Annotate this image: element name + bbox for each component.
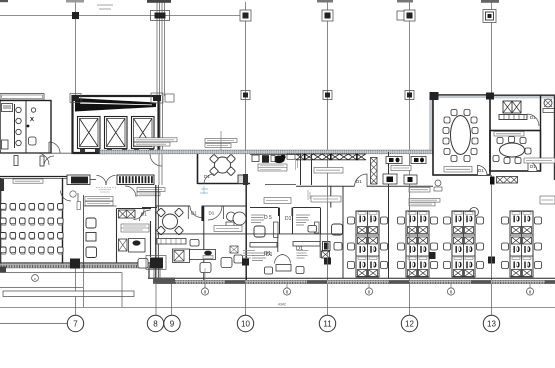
svg-text:D1: D1 xyxy=(356,179,362,184)
svg-text:8: 8 xyxy=(153,320,158,329)
svg-text:D1: D1 xyxy=(530,164,536,169)
svg-text:D1: D1 xyxy=(296,246,303,252)
svg-text:13: 13 xyxy=(487,320,496,329)
svg-text:D1: D1 xyxy=(530,115,536,120)
svg-text:D1: D1 xyxy=(285,216,292,222)
svg-text:7: 7 xyxy=(73,320,78,329)
svg-text:D 5: D 5 xyxy=(264,215,272,221)
svg-text:D1: D1 xyxy=(209,211,215,216)
svg-text:D1: D1 xyxy=(264,251,271,257)
svg-text:4342: 4342 xyxy=(278,303,286,307)
svg-text:9: 9 xyxy=(170,320,175,329)
svg-text:D1: D1 xyxy=(478,168,484,173)
svg-text:10: 10 xyxy=(241,320,250,329)
svg-text:D1: D1 xyxy=(204,174,210,179)
svg-text:11: 11 xyxy=(323,320,332,329)
svg-text:c: c xyxy=(34,276,36,281)
svg-text:D1: D1 xyxy=(191,211,197,216)
svg-text:12: 12 xyxy=(405,320,414,329)
